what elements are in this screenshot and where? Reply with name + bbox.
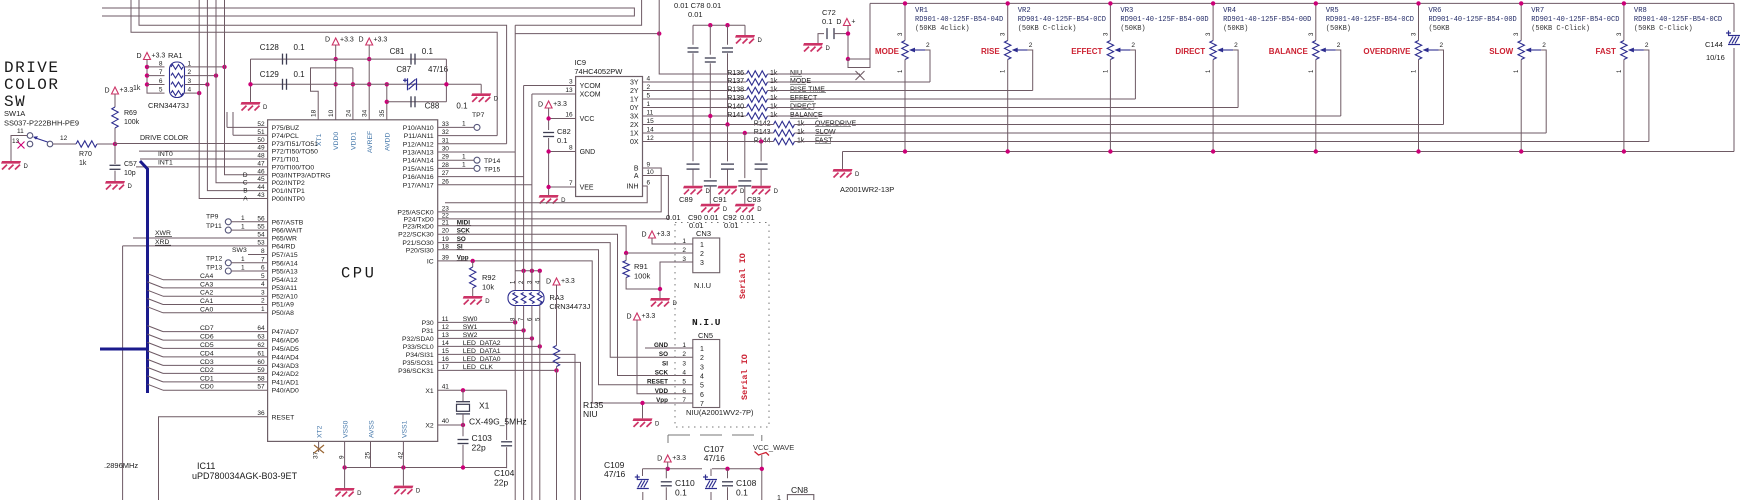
svg-text:36: 36 [257,410,265,417]
svg-text:56: 56 [257,215,265,222]
svg-text:50: 50 [257,137,265,144]
RA3 top rail [515,270,540,272]
svg-text:P55/A13: P55/A13 [272,269,298,276]
capacitor C88 0.1 [410,96,412,107]
svg-text:N.I.U: N.I.U [692,317,721,328]
svg-text:4: 4 [261,281,265,288]
svg-text:21: 21 [442,219,450,226]
svg-text:2: 2 [188,69,192,76]
junction CN3 pin2 R91 [624,251,628,255]
electrolytic C107 [710,469,712,476]
svg-text:48: 48 [257,153,265,160]
svg-text:0.1: 0.1 [422,47,434,56]
svg-text:TP13: TP13 [206,265,222,272]
svg-text:SW3: SW3 [232,247,247,254]
svg-text:CD4: CD4 [200,350,214,357]
svg-text:0.01: 0.01 [688,10,703,19]
wire SW2 row [438,337,532,339]
svg-text:CD0: CD0 [200,384,214,391]
bottom rail left ground [842,152,844,170]
svg-text:CD7: CD7 [200,325,214,332]
svg-text:0.1: 0.1 [456,102,468,111]
wires pins 32,31,30 [438,135,498,137]
svg-text:3: 3 [569,79,573,86]
wire C88 row [387,101,447,103]
svg-text:1X: 1X [630,131,639,138]
svg-text:2X: 2X [630,122,639,129]
svg-text:D: D [826,46,831,52]
svg-text:2: 2 [261,298,265,305]
svg-text:11: 11 [647,110,654,117]
svg-text:P42/AD2: P42/AD2 [272,371,299,378]
svg-text:P36/SCK31: P36/SCK31 [398,368,434,375]
power D+3.3 for RA1 [144,53,151,60]
capacitor C78b 0.01 [709,25,711,55]
right column C81/C88 join [445,59,447,102]
svg-text:6: 6 [159,78,163,85]
wire CN5 ground stub [642,403,644,418]
svg-text:P67/ASTB: P67/ASTB [272,219,304,226]
wiper wire VR3 to net row [1130,50,1135,99]
svg-text:(50KB 4click): (50KB 4click) [915,25,970,33]
svg-text:P45/AD5: P45/AD5 [272,346,299,353]
svg-text:P25/ASCK0: P25/ASCK0 [397,209,433,216]
svg-text:46: 46 [257,168,265,175]
svg-text:1: 1 [188,60,192,67]
VSS1 column and ground [402,441,404,485]
wire X1 row [438,389,507,391]
svg-text:AVREF: AVREF [367,131,374,153]
svg-text:D: D [673,301,678,307]
svg-text:R70: R70 [79,151,92,158]
svg-text:74HC4052PW: 74HC4052PW [574,67,623,76]
svg-text:SLOW: SLOW [1489,47,1513,56]
wiper arrow VR3 [1116,49,1130,51]
svg-text:D: D [641,232,646,239]
dashed box Serial IO NIU [675,223,769,428]
power D+3.3 for CN3 pin1 [649,231,656,238]
svg-text:CPU: CPU [341,265,376,283]
svg-text:P71/TI01: P71/TI01 [272,157,300,164]
switch SW1A pin 11 wire and ground [11,136,30,162]
wire YCOM vertical [523,86,525,291]
svg-text:49: 49 [257,145,265,152]
svg-text:53: 53 [257,239,265,246]
capacitor C104 22p [501,441,512,443]
svg-text:P70/TI00/TO0: P70/TI00/TO0 [272,164,315,171]
svg-text:29: 29 [442,154,450,161]
svg-text:CD5: CD5 [200,342,214,349]
svg-text:+3.3: +3.3 [561,278,575,285]
svg-text:P53/A11: P53/A11 [272,285,298,292]
svg-text:TP11: TP11 [206,223,222,230]
svg-text:16: 16 [565,112,573,119]
wires INT0 INT1 to pins 48,47 [140,158,268,160]
svg-text:5: 5 [261,273,265,280]
wiper arrow VR8 [1630,49,1644,51]
RA3 top pin wires [523,271,525,291]
svg-text:TP9: TP9 [206,214,219,221]
svg-text:X2: X2 [425,423,434,430]
wiper arrow VR5 [1322,49,1336,51]
wire LED_CLK row to R135 [438,369,557,371]
ground right of C78 rail [744,25,746,35]
svg-text:X1: X1 [425,388,434,395]
rail B y84.3 with C129 and C87 [251,83,482,85]
svg-text:B: B [634,166,639,173]
svg-text:54: 54 [257,232,265,239]
svg-text:C108: C108 [736,478,757,488]
resistor R136 1k NIU [685,73,746,75]
svg-text:P41/AD1: P41/AD1 [272,379,299,386]
svg-text:XWR: XWR [155,230,171,237]
VR bottom rail [843,151,1735,153]
svg-text:R136: R136 [727,70,744,77]
wiper arrow VR7 [1527,49,1541,51]
svg-text:3: 3 [261,289,265,296]
svg-text:47/16: 47/16 [704,453,726,463]
svg-text:41: 41 [442,383,450,390]
test point TP7 circle on pin 33 [438,126,474,128]
svg-text:52: 52 [257,121,265,128]
svg-text:1: 1 [700,242,704,249]
svg-text:22p: 22p [494,478,508,488]
bus entries CD7-CD0 [163,331,268,333]
svg-text:+: + [851,19,855,26]
svg-text:5: 5 [647,93,651,100]
wiper arrow VR6 [1425,49,1439,51]
svg-text:6: 6 [647,180,651,187]
svg-text:100k: 100k [124,119,140,126]
wire CN3 pin3 to ground [660,262,693,298]
svg-text:RD901-40-125F-B54-00D: RD901-40-125F-B54-00D [1429,16,1517,24]
svg-text:4: 4 [682,370,686,377]
net DRIVE COLOR wire to CPU pin 50 [115,143,268,145]
svg-text:XCOM: XCOM [580,92,601,99]
svg-text:VCC: VCC [580,116,595,123]
svg-text:SS037-P222BHH-PE9: SS037-P222BHH-PE9 [4,119,79,128]
svg-text:P31: P31 [422,328,434,335]
svg-text:14: 14 [442,340,450,347]
svg-text:R139: R139 [727,95,744,102]
svg-text:62: 62 [257,342,265,349]
svg-text:P65/WR: P65/WR [272,236,297,243]
svg-text:D: D [657,456,662,463]
svg-text:2: 2 [1131,42,1135,49]
svg-text:1k: 1k [79,160,87,167]
svg-text:IC: IC [427,258,434,265]
svg-text:44: 44 [257,184,265,191]
svg-text:P02/INTP2: P02/INTP2 [272,180,305,187]
svg-text:P51/A9: P51/A9 [272,302,295,309]
svg-text:24: 24 [346,109,353,117]
svg-text:R137: R137 [727,78,744,85]
svg-text:VR3: VR3 [1120,7,1133,15]
svg-text:DRIVE COLOR: DRIVE COLOR [140,135,188,142]
svg-text:5: 5 [700,383,704,390]
resistor R69 100k [114,94,116,107]
svg-text:2: 2 [1645,42,1649,49]
svg-text:0.01: 0.01 [704,213,719,222]
connector CN3 box [693,238,720,273]
capacitor C144 10/16 electrolytic [1733,3,1735,32]
svg-text:C93: C93 [747,195,761,204]
svg-text:P17/AN17: P17/AN17 [403,182,434,189]
svg-text:X1: X1 [479,401,490,411]
svg-text:47: 47 [257,160,265,167]
dashed bracket above C109 C107 [668,434,690,436]
svg-text:D: D [263,105,268,111]
ground for CN3 [650,298,670,301]
svg-text:+3.3: +3.3 [553,101,567,108]
svg-text:C128: C128 [260,43,280,52]
svg-text:P35/SO31: P35/SO31 [402,360,434,367]
svg-text:uPD780034AGK-B03-9ET: uPD780034AGK-B03-9ET [192,471,298,481]
svg-text:CD1: CD1 [200,375,214,382]
bundle vertical B x207 [207,0,267,191]
svg-text:D: D [243,172,248,179]
svg-text:3: 3 [700,260,704,267]
ground at end of rail B [480,84,482,93]
svg-text:D: D [24,164,29,170]
svg-text:P66/WAIT: P66/WAIT [272,228,303,235]
wire LED_DATA1 row down [438,354,575,500]
svg-text:7: 7 [569,180,573,187]
connector CN5 box [693,340,720,408]
svg-text:2: 2 [926,42,930,49]
svg-text:CD3: CD3 [200,359,214,366]
test point TP14 [438,159,474,161]
svg-text:30: 30 [442,146,450,153]
svg-text:P43/AD3: P43/AD3 [272,363,299,370]
ground for SW1A [1,161,21,164]
svg-text:3: 3 [188,78,192,85]
junction Vpp R92 [471,259,475,263]
svg-text:D: D [836,19,841,26]
svg-text:2Y: 2Y [630,88,639,95]
wiper wire VR8 to net row [1644,50,1649,142]
ground for C128/C129 [241,102,261,105]
svg-text:VDD0: VDD0 [333,132,340,150]
svg-text:60: 60 [257,359,265,366]
svg-text:37: 37 [313,451,320,459]
svg-text:3: 3 [682,360,686,367]
svg-text:5: 5 [159,87,163,94]
svg-text:63: 63 [257,334,265,341]
svg-text:VR4: VR4 [1223,7,1236,15]
svg-text:1: 1 [241,215,245,222]
svg-text:P64/RD: P64/RD [272,243,296,250]
svg-text:2: 2 [1440,42,1444,49]
svg-text:CN3: CN3 [696,229,711,238]
svg-text:18: 18 [442,243,450,250]
svg-text:10: 10 [328,109,335,117]
svg-text:IC9: IC9 [574,58,586,67]
bottom rail under crystal [345,467,507,469]
svg-text:RD901-40-125F-B54-0CD: RD901-40-125F-B54-0CD [1018,16,1106,24]
svg-text:12: 12 [60,135,68,142]
svg-text:RESET: RESET [272,414,295,421]
svg-text:P33/SCL0: P33/SCL0 [403,344,434,351]
svg-text:NIU(A2001WV2-7P): NIU(A2001WV2-7P) [686,408,754,417]
svg-text:SI: SI [662,360,668,367]
vertical x539.8 to bottom [539,346,541,500]
RESET wire pin 36 [159,417,268,500]
op IC9 74HC4052PW box [576,77,643,197]
svg-text:R138: R138 [727,87,744,94]
capacitor C90 0.01 [704,180,717,182]
svg-text:7: 7 [700,401,704,408]
svg-text:D: D [104,88,109,95]
power D+3.3 for R135 [553,278,560,285]
svg-text:14: 14 [647,127,655,134]
wiper wire VR4 to net row [1233,50,1238,108]
svg-text:P32/SDA0: P32/SDA0 [402,336,434,343]
svg-text:39: 39 [442,254,450,261]
svg-text:C89: C89 [679,195,693,204]
svg-text:C72: C72 [822,8,836,17]
long vertical wire x122.6 to bottom [122,246,124,500]
svg-text:INH: INH [626,184,638,191]
svg-text:VSS0: VSS0 [343,420,350,438]
svg-text:1: 1 [241,264,245,271]
svg-text:CRN34473J: CRN34473J [549,302,590,311]
svg-text:51: 51 [257,129,265,136]
net row EFFECT to VR3 [768,98,1136,100]
AVSS column [370,441,372,467]
svg-text:P15/AN15: P15/AN15 [403,166,434,173]
svg-text:P57/A15: P57/A15 [272,252,298,259]
svg-text:D: D [855,172,860,178]
resistor R70 1k [53,143,76,145]
XCOM long vertical x531.9 [531,338,533,500]
svg-text:15: 15 [647,118,655,125]
svg-text:P46/AD6: P46/AD6 [272,338,299,345]
wiper wire VR1 to net row [925,50,930,82]
svg-text:C110: C110 [675,478,695,488]
svg-text:P54/A12: P54/A12 [272,277,298,284]
capacitor C81 0.1 [410,54,412,65]
net row NIU with no-connect X [768,73,861,75]
wire SO to CN5 SO [438,243,693,358]
svg-text:VDD1: VDD1 [351,132,358,150]
capacitor C78a 0.01 [692,25,694,45]
svg-text:SW1A: SW1A [4,109,25,118]
svg-text:3X: 3X [630,114,639,121]
capacitor C128 0.1 [282,54,284,65]
svg-text:VSS1: VSS1 [401,420,408,438]
svg-text:(50KB: (50KB [1429,25,1450,33]
wire X2 row [438,424,463,426]
svg-text:P03/INTP3/ADTRG: P03/INTP3/ADTRG [272,172,331,179]
CPU IC11 box [268,120,438,442]
svg-text:+3.3: +3.3 [657,231,671,238]
svg-text:2: 2 [682,351,686,358]
svg-text:0.01 C78 0.01: 0.01 C78 0.01 [674,1,721,10]
svg-text:(50KB): (50KB) [1326,25,1351,33]
svg-text:0X: 0X [630,139,639,146]
svg-text:1: 1 [647,101,651,108]
ground for VEE [539,195,559,198]
power D+3.3 for R69 [112,87,119,94]
svg-text:R69: R69 [124,110,137,117]
svg-text:8: 8 [569,145,573,152]
capacitor C108 0.1 [727,469,729,479]
svg-text:0.1: 0.1 [294,43,306,52]
svg-text:D: D [416,489,421,495]
svg-text:40: 40 [442,418,450,425]
svg-text:COLOR: COLOR [4,76,60,94]
test point TP15 [438,167,474,169]
net row MODE to VR1 [768,81,931,83]
svg-text:0.1: 0.1 [557,136,567,145]
capacitor C92 0.01 [744,133,746,178]
capacitor C110 0.1 [665,469,667,479]
svg-text:58: 58 [257,375,265,382]
svg-text:D: D [723,207,728,213]
svg-text:P12/AN12: P12/AN12 [403,141,434,148]
svg-text:2: 2 [700,355,704,362]
svg-text:47/16: 47/16 [604,469,626,479]
svg-text:64: 64 [257,325,265,332]
svg-text:+3.3: +3.3 [340,37,354,44]
svg-text:D: D [494,96,499,102]
wire pin23 to IC9 B loop [438,168,662,212]
svg-text:CX-49G_5MHz: CX-49G_5MHz [469,417,527,427]
svg-text:11: 11 [17,128,24,135]
svg-text:A2001WR2-13P: A2001WR2-13P [840,185,894,194]
svg-text:0.01: 0.01 [740,213,755,222]
ground for C57 [105,181,125,184]
wire pin22 to IC9 A loop [438,176,669,219]
svg-text:1: 1 [462,153,466,160]
svg-text:TP12: TP12 [206,256,222,263]
svg-text:13: 13 [12,138,20,145]
svg-text:CN8: CN8 [791,485,808,495]
svg-text:10p: 10p [124,170,136,177]
svg-text:SO: SO [659,351,668,358]
svg-text:C81: C81 [390,47,405,56]
svg-text:RD901-40-125F-B54-0CD: RD901-40-125F-B54-0CD [1634,16,1722,24]
svg-text:CD6: CD6 [200,334,214,341]
wire pin 27 to YCOM column [438,176,524,178]
svg-text:11: 11 [442,316,449,323]
svg-text:1: 1 [261,306,265,313]
svg-text:TP15: TP15 [484,167,500,174]
svg-text:EFFECT: EFFECT [1071,47,1102,56]
svg-text:VR7: VR7 [1531,7,1544,15]
svg-text:D: D [325,37,330,44]
svg-text:3Y: 3Y [630,80,639,87]
wires CPU pins 52,51 stubs [227,126,268,128]
svg-text:SCK: SCK [655,370,669,377]
svg-text:XRD: XRD [155,239,169,246]
thick data bus left of CPU [140,161,148,393]
ground for R92 [463,296,483,299]
svg-text:1: 1 [462,162,466,169]
resistor array RA1 CRN34473J [170,62,185,98]
svg-text:VEE: VEE [580,185,594,192]
svg-text:47/16: 47/16 [428,65,449,74]
svg-text:5: 5 [682,379,686,386]
svg-text:P75/BUZ: P75/BUZ [272,125,300,132]
net row FAST to VR8 [795,141,1649,143]
wiper arrow VR4 [1219,49,1233,51]
left column joining C128 C129 to ground [250,59,252,102]
svg-text:VCC_WAVE: VCC_WAVE [753,443,794,452]
svg-text:TP14: TP14 [484,158,500,165]
wire SW0 row [438,321,516,323]
